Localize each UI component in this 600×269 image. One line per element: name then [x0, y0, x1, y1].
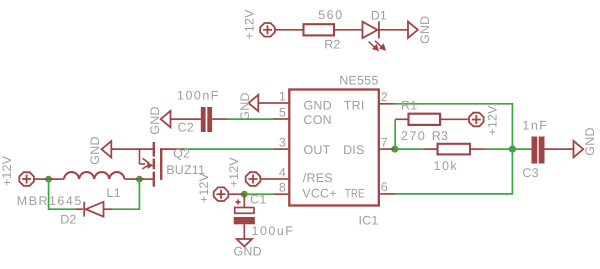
wire D2 to drain junction	[112, 179, 139, 209]
svg-text:560: 560	[318, 8, 343, 22]
resistor R1	[409, 114, 441, 125]
svg-text:100nF: 100nF	[177, 89, 220, 103]
svg-text:+12V: +12V	[197, 172, 211, 203]
ground (Q2 source, triangle pointing left)	[102, 141, 112, 157]
svg-text:C3: C3	[522, 166, 538, 180]
wire P4 to junction	[228, 193, 244, 195]
svg-text:OUT: OUT	[304, 143, 331, 157]
svg-text:5: 5	[279, 105, 286, 119]
wire P1 to R2	[275, 29, 304, 31]
ground (below C1, triangle pointing down)	[237, 239, 252, 246]
wire DIS net to R3	[395, 148, 423, 150]
wire Q2 gate to OUT	[160, 148, 184, 150]
transistor Q2 channel	[154, 142, 161, 187]
svg-text:/RES: /RES	[303, 171, 333, 185]
svg-text:TRI: TRI	[344, 98, 365, 112]
wire R2 to D1	[334, 29, 363, 31]
supply +12V P5 (R1 right)	[469, 113, 484, 127]
wire left junction down to D2	[49, 179, 76, 209]
svg-text:+12V: +12V	[227, 157, 241, 188]
svg-text:VCC+: VCC+	[302, 187, 337, 201]
svg-text:D2: D2	[60, 213, 76, 227]
wire TRI net (pin2 loop)	[395, 104, 513, 194]
wire C2 to pin5 (net CON)	[212, 118, 227, 120]
wire junction up to R1	[394, 119, 396, 149]
wire L1 to junction right	[124, 178, 139, 180]
capacitor C2	[201, 107, 206, 132]
pin 8 stub (VCC+)	[274, 193, 290, 195]
svg-text:+12V: +12V	[0, 155, 14, 186]
svg-text:IC1: IC1	[358, 214, 378, 228]
ground (C2 left, triangle pointing left)	[161, 111, 171, 127]
wire R3 to C3	[470, 148, 485, 150]
LED D1	[363, 21, 379, 38]
ground GND (top right, triangle pointing right)	[408, 22, 418, 38]
svg-text:100uF: 100uF	[252, 224, 295, 238]
capacitor C1 plus sign	[236, 200, 241, 205]
svg-text:GND: GND	[148, 106, 162, 134]
resistor R3	[438, 144, 471, 155]
pin 2 stub (TRI)	[379, 103, 395, 105]
ground (right, triangle pointing right)	[574, 141, 584, 157]
svg-text:C1: C1	[250, 192, 266, 206]
inductor L1	[64, 172, 124, 179]
transistor Q2 body connection	[140, 149, 150, 169]
svg-text:7: 7	[381, 135, 388, 149]
wire junction to pin8	[244, 193, 273, 195]
svg-text:MBR1645: MBR1645	[17, 194, 83, 208]
LED D1 arrows	[369, 41, 385, 50]
svg-text:4: 4	[279, 165, 286, 179]
svg-text:C2: C2	[178, 121, 194, 135]
svg-text:8: 8	[279, 181, 286, 195]
svg-text:+12V: +12V	[242, 9, 256, 40]
svg-text:1nF: 1nF	[522, 119, 548, 133]
svg-text:2: 2	[381, 90, 388, 104]
svg-text:R2: R2	[324, 37, 340, 51]
wire junction down to C1	[243, 194, 245, 207]
pin 5 stub (CON)	[274, 118, 290, 120]
svg-text:CON: CON	[304, 113, 332, 127]
supply +12V P3 (pin4)	[246, 172, 261, 186]
supply +12V P4 (pin8)	[214, 187, 229, 201]
svg-text:Q2: Q2	[173, 147, 190, 161]
pin 7 stub (DIS)	[379, 148, 395, 150]
svg-text:GND: GND	[418, 16, 432, 44]
svg-text:GND: GND	[583, 127, 597, 155]
wire stub to D2 cathode	[76, 208, 84, 210]
wire D1 to GND	[379, 29, 408, 31]
transistor Q2 gate bar	[160, 148, 162, 180]
wire P2 to junction	[34, 178, 49, 180]
wire P3 to pin4	[260, 178, 273, 180]
svg-text:DIS: DIS	[343, 143, 364, 157]
svg-text:1: 1	[279, 89, 286, 103]
wire R1 to +12V	[440, 118, 469, 120]
svg-text:6: 6	[381, 180, 388, 194]
svg-text:GND: GND	[238, 92, 252, 120]
pin 3 stub (OUT)	[274, 148, 290, 150]
node junction right (drain)	[136, 176, 143, 183]
svg-text:D1: D1	[371, 8, 387, 22]
svg-text:GND: GND	[88, 136, 102, 164]
node junction left	[45, 176, 52, 183]
capacitor C1	[235, 208, 254, 214]
svg-text:270: 270	[401, 129, 426, 143]
node junction VCC	[241, 191, 248, 198]
wire gnd to Q2 source	[111, 148, 153, 150]
svg-text:R3: R3	[432, 129, 448, 143]
svg-text:GND: GND	[304, 99, 332, 113]
wire C3 to ground	[545, 148, 574, 150]
supply +12V P1 (top left octagon)	[260, 23, 275, 37]
pin 4 stub (/RES)	[274, 178, 290, 180]
wire gnd to C2	[171, 118, 201, 120]
resistor R2	[304, 24, 335, 35]
diode D2 (pointing left)	[84, 202, 103, 217]
op-amp? no: timer IC1 NE555 box	[289, 90, 379, 206]
svg-text:R1: R1	[401, 99, 417, 113]
supply +12V P2 (far left octagon)	[19, 172, 34, 186]
svg-text:L1: L1	[107, 186, 121, 200]
wire D2 anode stub	[104, 208, 113, 210]
pin 6 stub (TRE)	[379, 193, 395, 195]
wire pin1 to ground	[258, 102, 273, 104]
capacitor C3	[532, 137, 538, 164]
node junction at TRI/DIS cross	[509, 146, 516, 153]
svg-text:TRE: TRE	[345, 187, 365, 201]
ground (pin1, triangle pointing left)	[249, 95, 259, 111]
wire C1 to ground	[243, 224, 245, 239]
svg-text:+12V: +12V	[485, 105, 499, 136]
pin 1 stub (GND)	[274, 102, 290, 104]
svg-text:NE555: NE555	[339, 73, 378, 87]
wire junction to Q2 drain	[139, 178, 153, 180]
svg-text:10k: 10k	[434, 159, 459, 173]
wire junction to L1	[49, 178, 64, 180]
svg-text:GND: GND	[234, 245, 262, 259]
node junction DIS at pin7	[391, 146, 398, 153]
svg-text:3: 3	[279, 135, 286, 149]
